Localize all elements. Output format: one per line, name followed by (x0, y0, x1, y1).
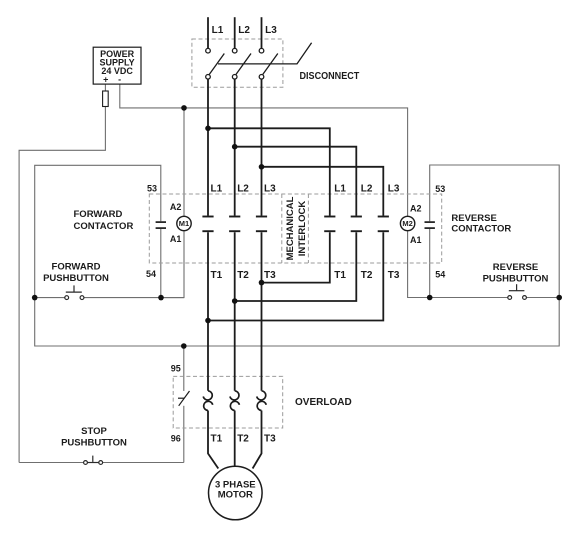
svg-text:L1: L1 (334, 183, 346, 194)
M2 coil circle (400, 216, 414, 230)
wire: crossover L2 to reverse L2 (235, 147, 357, 216)
power line: forward T1 down to overload (207, 232, 209, 391)
dashed box: mechanical interlock partition (282, 194, 309, 263)
label REVERSE CONTACTOR (451, 213, 511, 234)
junction dot: T3/reverse T1 (259, 280, 265, 286)
svg-text:T1: T1 (334, 270, 346, 281)
wire: control return rail (35, 298, 560, 347)
labels reverse contact T1 T2 T3 (334, 270, 400, 281)
reverse pushbutton contacts (508, 284, 527, 299)
svg-text:T3: T3 (264, 270, 276, 281)
wire: forward pushbutton rung (35, 297, 184, 299)
label REVERSE PUSHBUTTON (483, 262, 549, 284)
label FORWARD CONTACTOR (74, 209, 134, 232)
svg-text:A2: A2 (410, 204, 422, 214)
junction dot: reverse aux/coil junction (427, 295, 433, 301)
wire: reverse T2 crossover to forward T2 (235, 232, 357, 301)
forward pushbutton contacts (65, 285, 84, 299)
label STOP PUSHBUTTON (61, 426, 127, 448)
disconnect switch pole 1 (206, 48, 225, 79)
svg-text:54: 54 (146, 269, 156, 279)
wire: forward seal-in loop (contactor box outline) (35, 165, 161, 297)
wire: M1 coil A1 down and left to 53-54/pushbutton junction (161, 231, 184, 298)
svg-text:T1: T1 (211, 434, 223, 445)
svg-text:95: 95 (171, 363, 181, 373)
svg-text:A2: A2 (170, 202, 182, 212)
dashed box: overload enclosure (173, 376, 283, 428)
svg-text:T3: T3 (388, 270, 400, 281)
svg-text:A1: A1 (410, 235, 422, 245)
forward contactor main contact L3-T3 (256, 217, 267, 232)
junction dot: L3 crossover (259, 164, 265, 170)
wire: stop pushbutton bottom rail (19, 462, 184, 464)
labels overload T1 T2 T3 (211, 434, 277, 445)
wire: M1 coil A2 drop from -24V rail (183, 108, 185, 216)
svg-text:CONTACTOR: CONTACTOR (451, 224, 511, 235)
labels forward contact L1 L2 L3 (211, 183, 277, 194)
svg-text:54: 54 (435, 270, 445, 280)
reverse contactor main contact L1-T1 (324, 217, 335, 232)
svg-text:L1: L1 (212, 25, 224, 36)
power line: T3 lead to motor (253, 411, 262, 469)
power line: L2 disconnect to forward contact (234, 79, 236, 216)
svg-text:T1: T1 (211, 270, 223, 281)
power line: L3 supply entry (261, 17, 263, 48)
wire: crossover L3 to reverse L3 (262, 167, 384, 216)
wire: overload 96 down to stop pushbutton rail (183, 406, 185, 463)
junction dot: forward pushbutton left (32, 295, 38, 301)
power line: L1 disconnect to forward contact (207, 79, 209, 216)
overload trip contact 95-96 (178, 391, 190, 406)
svg-text:L1: L1 (211, 183, 223, 194)
svg-text:FORWARD: FORWARD (74, 209, 123, 220)
reverse contactor main contact L2-T2 (351, 217, 362, 232)
M1 coil circle (177, 216, 191, 230)
junction dot: return rail to overload (181, 343, 187, 349)
labels reverse contact L1 L2 L3 (334, 183, 400, 194)
svg-text:T2: T2 (361, 270, 373, 281)
wire: M2 coil A1 down and right to reverse aux junction (408, 231, 430, 298)
svg-text:PUSHBUTTON: PUSHBUTTON (483, 273, 549, 284)
junction dot: T1/reverse T3 (205, 318, 211, 324)
wire: overload 95 drop from return rail (183, 346, 185, 391)
svg-text:STOP: STOP (81, 426, 107, 437)
power supply box (93, 47, 141, 84)
power line: L2 supply entry (234, 17, 236, 48)
dashed box: contactor assembly enclosure (149, 194, 441, 263)
overload heater T2 (230, 391, 240, 411)
svg-text:M1: M1 (179, 219, 189, 228)
wire: reverse aux 54 down to junction (429, 229, 431, 298)
overload heater T3 (257, 391, 267, 411)
svg-text:L2: L2 (361, 183, 373, 194)
power line: T2 lead to motor (234, 411, 236, 467)
svg-text:MECHANICAL: MECHANICAL (285, 196, 296, 260)
forward contactor main contact L2-T2 (229, 217, 240, 232)
wire: reverse pushbutton rung (430, 297, 560, 299)
forward aux contact 53-54 (156, 222, 166, 228)
svg-text:FORWARD: FORWARD (52, 261, 101, 272)
svg-text:M2: M2 (402, 219, 412, 228)
dashed box: disconnect enclosure (192, 39, 283, 87)
svg-text:53: 53 (435, 184, 445, 194)
label 3 PHASE MOTOR (215, 479, 256, 500)
overload heater T1 (203, 391, 213, 411)
reverse contactor main contact L3-T3 (378, 217, 389, 232)
power line: L1 supply entry (207, 17, 209, 48)
svg-text:T3: T3 (264, 434, 276, 445)
disconnect switch pole 3 (259, 48, 278, 79)
svg-text:96: 96 (171, 434, 181, 444)
svg-text:-: - (118, 75, 121, 85)
power line: T1 lead to motor (208, 411, 218, 469)
svg-text:PUSHBUTTON: PUSHBUTTON (61, 437, 127, 448)
wire: -24V rail from supply to M2 coil (120, 84, 408, 216)
label MECHANICAL INTERLOCK (rotated) (285, 196, 308, 260)
forward contactor main contact L1-T1 (202, 217, 213, 232)
svg-text:REVERSE: REVERSE (451, 213, 496, 224)
svg-text:A1: A1 (170, 234, 182, 244)
svg-text:L3: L3 (265, 25, 277, 36)
svg-text:REVERSE: REVERSE (493, 262, 538, 273)
svg-text:L3: L3 (264, 183, 276, 194)
power line: forward T3 down to overload (261, 232, 263, 391)
power line: forward T2 down to overload (234, 232, 236, 391)
disconnect linkage bar and handle (218, 43, 312, 64)
disconnect switch pole 2 (232, 48, 251, 79)
wire: forward aux 54 down to junction (160, 229, 162, 298)
wire: crossover L1 to reverse L1 (208, 128, 330, 215)
svg-text:DISCONNECT: DISCONNECT (300, 71, 360, 82)
svg-text:L2: L2 (237, 183, 249, 194)
junction dot: L2 crossover (232, 144, 238, 150)
label POWER SUPPLY 24 VDC (100, 49, 135, 85)
stop pushbutton contacts (84, 456, 103, 465)
svg-text:OVERLOAD: OVERLOAD (295, 397, 352, 408)
power line: L3 disconnect to forward contact (261, 79, 263, 216)
junction dot: reverse pushbutton right (556, 295, 562, 301)
svg-text:L2: L2 (238, 25, 250, 36)
wire: +24V from supply down through fuse, left and down to stop pushbutton rail (19, 84, 105, 462)
labels forward contact T1 T2 T3 (211, 270, 277, 281)
wire: reverse T1 crossover to forward T3 (262, 232, 330, 282)
svg-text:53: 53 (147, 184, 157, 194)
motor circle (209, 466, 263, 520)
fuse (103, 91, 109, 107)
svg-text:INTERLOCK: INTERLOCK (297, 201, 308, 257)
svg-text:MOTOR: MOTOR (218, 490, 253, 501)
junction dot: -24V to M1 coil (181, 105, 187, 111)
svg-text:PUSHBUTTON: PUSHBUTTON (43, 273, 109, 284)
label FORWARD PUSHBUTTON (43, 261, 109, 284)
svg-text:L3: L3 (388, 183, 400, 194)
svg-text:CONTACTOR: CONTACTOR (74, 221, 134, 232)
reverse aux contact 53-54 (425, 222, 435, 228)
wire: reverse T3 crossover to forward T1 (208, 232, 383, 320)
wire: reverse seal-in loop (contactor box outline) (430, 165, 560, 298)
svg-text:T2: T2 (237, 434, 249, 445)
junction dot: L1 crossover (205, 126, 211, 132)
junction dot: forward aux/coil junction (158, 295, 164, 301)
svg-text:T2: T2 (237, 270, 249, 281)
junction dot: T2/reverse T2 (232, 298, 238, 304)
svg-text:+: + (103, 75, 108, 85)
